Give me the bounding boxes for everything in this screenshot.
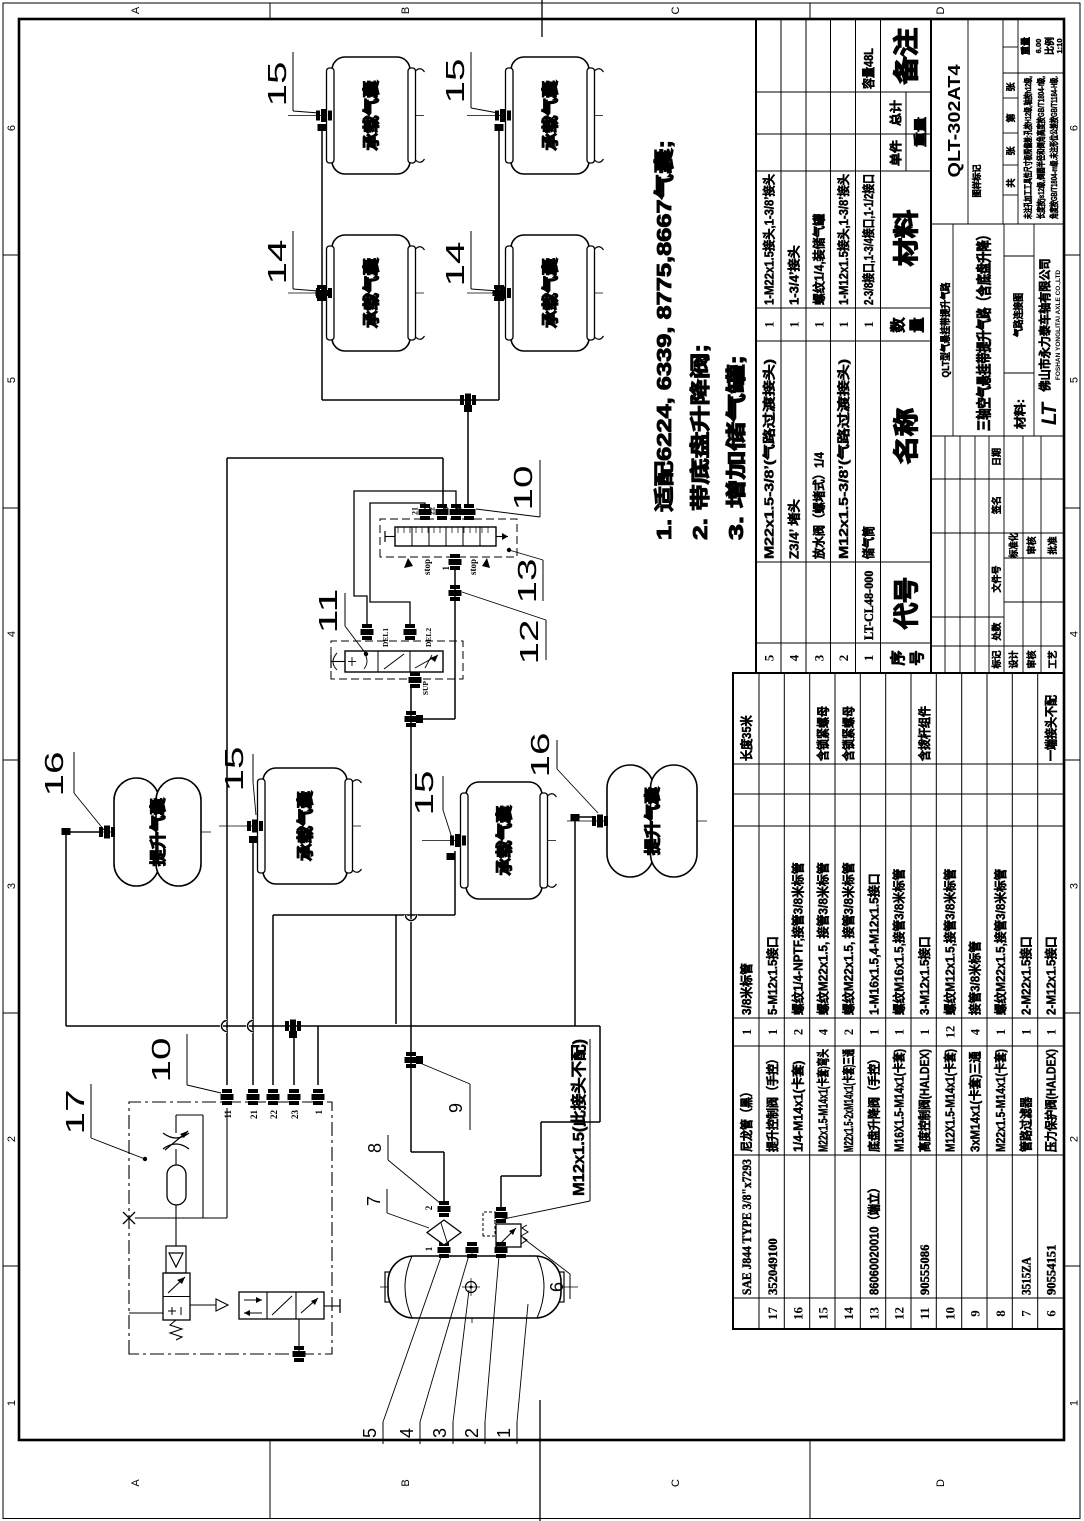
dashed box lift control valve — [380, 519, 517, 557]
svg-text:管路过滤器: 管路过滤器 — [1018, 1097, 1033, 1152]
svg-text:总计: 总计 — [888, 100, 903, 126]
svg-text:1: 1 — [788, 321, 802, 327]
svg-text:A: A — [130, 6, 142, 14]
svg-text:三轴空气悬挂带提升气路（含底盘升降）: 三轴空气悬挂带提升气路（含底盘升降） — [975, 229, 993, 431]
title block — [931, 19, 1064, 673]
tank port 1 + filter 7 — [424, 1220, 461, 1258]
svg-text:1: 1 — [441, 566, 451, 571]
svg-text:1: 1 — [740, 1029, 754, 1035]
svg-text:1: 1 — [813, 321, 827, 327]
svg-text:stop: stop — [422, 559, 432, 575]
svg-text:1: 1 — [1069, 1400, 1081, 1406]
svg-text:23: 23 — [442, 507, 451, 515]
svg-text:QLT型气悬挂带提升气路: QLT型气悬挂带提升气路 — [939, 282, 952, 378]
svg-text:4: 4 — [817, 1028, 831, 1035]
svg-text:备注: 备注 — [892, 28, 921, 85]
union fitting 12 target — [449, 585, 462, 601]
svg-text:未注孔加工工具性尺寸极限偏差:孔按H12级,轴按h12级,: 未注孔加工工具性尺寸极限偏差:孔按H12级,轴按h12级, — [1023, 76, 1033, 220]
callout 1 — [494, 1304, 528, 1444]
svg-text:17: 17 — [765, 1307, 780, 1321]
wire port21 to bag A — [248, 840, 254, 1085]
svg-text:2: 2 — [1069, 1136, 1081, 1142]
svg-text:张: 张 — [1005, 146, 1016, 156]
air bag 15 middle-right (load bag B) — [422, 782, 557, 899]
svg-text:21: 21 — [249, 1110, 259, 1120]
svg-text:90554151: 90554151 — [1045, 1245, 1059, 1295]
supply line from tank — [411, 688, 444, 1201]
svg-text:储气筒: 储气筒 — [861, 526, 876, 560]
svg-text:12: 12 — [943, 1026, 957, 1039]
callout 12 — [462, 592, 546, 665]
svg-text:10: 10 — [942, 1307, 957, 1320]
svg-text:15: 15 — [816, 1307, 831, 1321]
svg-text:1-3/4’接头: 1-3/4’接头 — [787, 245, 802, 305]
svg-text:M12x1.5-3/8’(气路过渡接头): M12x1.5-3/8’(气路过渡接头) — [836, 359, 851, 559]
svg-text:签名: 签名 — [991, 496, 1003, 515]
V1 pilot line to V2 — [190, 1299, 228, 1311]
svg-text:21: 21 — [411, 507, 420, 515]
svg-text:含锁紧螺母: 含锁紧螺母 — [816, 706, 831, 762]
svg-text:2-M22x1.5接口: 2-M22x1.5接口 — [1018, 936, 1033, 1015]
svg-text:材料: 材料 — [893, 210, 921, 266]
svg-text:长度按js12级,倒圆半径和倒角高度按GB/T1804-f级: 长度按js12级,倒圆半径和倒角高度按GB/T1804-f级, — [1036, 76, 1046, 219]
chassis valve lever top — [331, 653, 345, 670]
svg-text:4: 4 — [6, 631, 18, 637]
svg-text:角度按GB/T1804-m级.未注形位公差按GB/T1184: 角度按GB/T1804-m级.未注形位公差按GB/T1184-H级. — [1049, 76, 1059, 219]
svg-text:3-M12x1.5接口: 3-M12x1.5接口 — [917, 936, 932, 1015]
svg-text:压力保护阀(HALDEX): 压力保护阀(HALDEX) — [1044, 1049, 1059, 1152]
svg-text:16: 16 — [525, 733, 555, 778]
svg-text:号: 号 — [909, 650, 926, 665]
svg-text:B: B — [400, 7, 412, 14]
tee to port 24 — [460, 394, 476, 506]
air bag 15 middle-left (load bag A) — [219, 768, 362, 884]
svg-text:9: 9 — [446, 1103, 466, 1113]
elbow blobs at bag fittings — [62, 124, 580, 860]
svg-text:1: 1 — [867, 1029, 881, 1035]
svg-text:352049100: 352049100 — [766, 1238, 780, 1295]
svg-text:DEL2: DEL2 — [424, 628, 433, 647]
callout 14 lower — [440, 231, 498, 291]
callout 8 — [365, 1135, 440, 1203]
svg-text:10: 10 — [146, 1038, 176, 1083]
svg-text:容量48L: 容量48L — [861, 48, 876, 90]
svg-text:12: 12 — [514, 620, 544, 665]
svg-text:15: 15 — [219, 747, 249, 792]
callout 15 second bag — [440, 52, 498, 113]
svg-text:D: D — [935, 1479, 947, 1487]
svg-text:22: 22 — [269, 1110, 279, 1120]
lift valve port 1 — [441, 554, 462, 571]
chassis valve V2 (vertical 3-section) — [239, 1292, 324, 1319]
pressure protection valve 6 — [483, 1207, 528, 1258]
svg-text:M16X1.5-M14x1(卡套): M16X1.5-M14x1(卡套) — [892, 1049, 907, 1152]
svg-text:6: 6 — [547, 1282, 567, 1292]
svg-text:1: 1 — [6, 1400, 18, 1406]
svg-text:尼龙管（黑）: 尼龙管（黑） — [739, 1086, 754, 1152]
callout 4 — [397, 1255, 469, 1444]
svg-text:1/4-M14x1(卡套): 1/4-M14x1(卡套) — [790, 1061, 805, 1152]
svg-text:2: 2 — [462, 1428, 482, 1438]
svg-text:日期: 日期 — [991, 448, 1003, 466]
supply bus (vertical) — [66, 1025, 600, 1027]
svg-text:A: A — [130, 1479, 142, 1487]
svg-text:一端接头不配: 一端接头不配 — [1044, 695, 1059, 761]
svg-text:90555086: 90555086 — [918, 1245, 932, 1295]
svg-text:螺纹1/4,装储气罐: 螺纹1/4,装储气罐 — [812, 213, 827, 305]
svg-text:1: 1 — [862, 321, 876, 327]
fitting bag4 inline — [493, 285, 506, 301]
svg-text:C: C — [670, 1479, 682, 1487]
svg-text:序: 序 — [889, 650, 907, 665]
callout 11 — [313, 589, 368, 657]
svg-text:2: 2 — [6, 1136, 18, 1142]
svg-text:审核: 审核 — [1026, 650, 1038, 668]
svg-text:提升控制阀（手控）: 提升控制阀（手控） — [765, 1053, 780, 1152]
svg-text:16: 16 — [39, 752, 69, 797]
svg-text:代号: 代号 — [893, 577, 921, 630]
svg-text:4: 4 — [397, 1428, 417, 1438]
svg-text:6: 6 — [1044, 1310, 1059, 1317]
callout 2 — [462, 1256, 499, 1444]
svg-text:15: 15 — [440, 59, 470, 104]
svg-text:标记: 标记 — [991, 650, 1003, 669]
svg-text:M22x1.5-M14x1(卡套): M22x1.5-M14x1(卡套) — [993, 1049, 1008, 1152]
notes text — [652, 140, 748, 540]
svg-text:12: 12 — [892, 1307, 907, 1320]
svg-text:气路连接图: 气路连接图 — [1012, 293, 1025, 338]
svg-text:15: 15 — [409, 771, 439, 816]
svg-text:4: 4 — [1069, 631, 1081, 637]
svg-text:D: D — [935, 6, 947, 14]
callout 10 lower (box17 fittings) — [146, 1034, 221, 1093]
svg-text:3: 3 — [812, 654, 827, 661]
svg-text:5-M12x1.5接口: 5-M12x1.5接口 — [765, 936, 780, 1015]
air bag 15 lower (load bag) — [467, 57, 604, 174]
wire port22 to bag B — [273, 851, 455, 1085]
callout 15 bag B — [409, 771, 452, 839]
wire port 1 to bus — [317, 1026, 319, 1085]
svg-text:1: 1 — [861, 655, 876, 662]
svg-text:设计: 设计 — [1008, 650, 1020, 668]
svg-text:2: 2 — [791, 1029, 805, 1035]
box17 port fittings 11,21,22,23,1 — [221, 1089, 325, 1119]
svg-text:1: 1 — [494, 1428, 514, 1438]
svg-text:螺纹1/4-NPTF,接管3/8米标管: 螺纹1/4-NPTF,接管3/8米标管 — [790, 862, 805, 1015]
callout 3 — [430, 1290, 469, 1444]
callout 6 — [523, 1238, 570, 1299]
svg-text:6.00: 6.00 — [1034, 39, 1043, 54]
height control valve V1 — [163, 1273, 190, 1340]
svg-text:4: 4 — [787, 654, 802, 661]
svg-text:5: 5 — [360, 1428, 380, 1438]
air bag 14 lower (load bag) — [467, 235, 604, 351]
svg-text:13: 13 — [866, 1307, 881, 1321]
chassis valve body — [345, 651, 443, 672]
tee fitting 9 — [405, 1052, 424, 1068]
svg-text:M12X1.5-M14x1(卡套): M12X1.5-M14x1(卡套) — [942, 1049, 957, 1152]
svg-text:1-M22x1.5接头,1-3/8’接头: 1-M22x1.5接头,1-3/8’接头 — [762, 174, 777, 305]
svg-text:图样标记: 图样标记 — [971, 165, 982, 198]
svg-text:含拨杆组件: 含拨杆组件 — [917, 706, 932, 762]
svg-text:审核: 审核 — [1026, 536, 1038, 554]
svg-text:1: 1 — [994, 1029, 1008, 1035]
tee on bus to port 23 — [285, 1020, 301, 1086]
svg-text:4: 4 — [969, 1028, 983, 1035]
svg-text:1: 1 — [1019, 1029, 1033, 1035]
svg-text:22: 22 — [428, 507, 437, 515]
svg-text:QLT-302AT4: QLT-302AT4 — [944, 64, 964, 177]
wire bus to pressure valve chain — [501, 1026, 600, 1208]
V2 manual actuator — [324, 1299, 340, 1313]
svg-text:1: 1 — [837, 321, 851, 327]
tank middle plug port — [466, 1242, 479, 1258]
callout 13 — [507, 548, 543, 604]
svg-text:螺纹M16x1.5,接管3/8米标管: 螺纹M16x1.5,接管3/8米标管 — [892, 869, 907, 1015]
svg-text:1: 1 — [1045, 1029, 1059, 1035]
check valve — [166, 1246, 186, 1273]
svg-text:14: 14 — [440, 242, 470, 287]
svg-text:2: 2 — [836, 655, 851, 662]
svg-text:工艺: 工艺 — [1047, 650, 1059, 668]
wire bus to lift bag left — [66, 832, 102, 1026]
svg-text:1: 1 — [763, 321, 777, 327]
tank port 2 fitting 8 — [424, 1201, 451, 1217]
box17 internal wires — [129, 1108, 227, 1313]
svg-text:1. 适配6224, 6339, 8775,8667气囊;: 1. 适配6224, 6339, 8775,8667气囊; — [652, 140, 676, 540]
svg-text:6: 6 — [1069, 125, 1081, 131]
lift air bag 16 right — [567, 765, 707, 877]
air bag 14 upper (load bag) — [288, 235, 425, 351]
svg-text:14: 14 — [262, 240, 292, 285]
svg-text:螺纹M22x1.5,接管3/8米标管: 螺纹M22x1.5,接管3/8米标管 — [993, 869, 1008, 1015]
box17 blocked port X — [123, 1212, 227, 1224]
svg-text:stop: stop — [468, 559, 478, 575]
svg-text:7: 7 — [1018, 1310, 1033, 1317]
svg-text:M22x1.5-M14x1(卡套)弯头: M22x1.5-M14x1(卡套)弯头 — [816, 1049, 831, 1152]
svg-text:C: C — [670, 6, 682, 14]
svg-text:3/8米标管: 3/8米标管 — [739, 963, 754, 1015]
svg-text:16: 16 — [790, 1307, 805, 1321]
svg-text:FOSHAN YONGLITAI AXLE CO.,LTD: FOSHAN YONGLITAI AXLE CO.,LTD — [1055, 270, 1062, 381]
callout 16 right — [525, 733, 598, 814]
svg-text:7: 7 — [364, 1196, 384, 1206]
svg-text:螺纹M12x1.5,接管3/8米标管: 螺纹M12x1.5,接管3/8米标管 — [942, 869, 957, 1015]
svg-text:DEL1: DEL1 — [381, 628, 390, 647]
svg-text:1: 1 — [314, 1110, 324, 1115]
svg-text:SUP: SUP — [421, 681, 430, 696]
accumulator oval — [167, 1149, 186, 1246]
throttle valve — [163, 1131, 189, 1150]
svg-text:10: 10 — [508, 466, 538, 511]
svg-text:放水阀（螺堵式）1/4: 放水阀（螺堵式）1/4 — [812, 452, 827, 560]
stop labels and arrows — [404, 558, 490, 575]
svg-text:1:10: 1:10 — [1055, 38, 1064, 53]
svg-text:2-3/8接口,1-3/4接口,1-1/2接口: 2-3/8接口,1-3/4接口,1-1/2接口 — [861, 174, 876, 305]
svg-text:提升气囊: 提升气囊 — [149, 797, 168, 866]
svg-text:批准: 批准 — [1047, 536, 1059, 554]
callout 15 top bag — [262, 52, 319, 113]
parts list main table rows 1-5 with header — [756, 19, 931, 673]
svg-text:2: 2 — [842, 1029, 856, 1035]
wire port11 to valve port22 — [222, 458, 444, 1085]
svg-text:11: 11 — [223, 1110, 233, 1119]
svg-text:螺纹M22x1.5, 接管3/8米标管: 螺纹M22x1.5, 接管3/8米标管 — [841, 862, 856, 1015]
svg-text:11: 11 — [917, 1307, 932, 1319]
svg-text:11: 11 — [313, 589, 343, 634]
lift air bag 16 left — [74, 778, 211, 886]
svg-text:3. 增加储气罐;: 3. 增加储气罐; — [724, 355, 748, 540]
svg-text:1: 1 — [766, 1029, 780, 1035]
svg-text:长度35米: 长度35米 — [739, 715, 754, 761]
svg-text:提升气囊: 提升气囊 — [643, 786, 662, 855]
svg-text:高度控制阀(HALDEX): 高度控制阀(HALDEX) — [917, 1049, 932, 1152]
callout 5 — [360, 1257, 441, 1444]
svg-text:单件: 单件 — [888, 140, 903, 166]
svg-text:14: 14 — [841, 1307, 856, 1321]
lift valve body — [385, 527, 508, 546]
wire bus to lift bag right — [575, 817, 594, 1026]
svg-text:第: 第 — [1005, 113, 1016, 122]
svg-text:LT-CL48-000: LT-CL48-000 — [862, 571, 876, 640]
svg-text:1-M16x1.5,4-M12x1.5接口: 1-M16x1.5,4-M12x1.5接口 — [866, 873, 881, 1015]
svg-text:23: 23 — [290, 1110, 300, 1120]
svg-text:SAE J844 TYPE 3/8"x7293: SAE J844 TYPE 3/8"x7293 — [740, 1159, 754, 1295]
callout 14 upper — [262, 231, 318, 291]
svg-text:9: 9 — [968, 1310, 983, 1317]
dashed box chassis lift valve — [331, 641, 463, 679]
callout 9 — [420, 1063, 470, 1130]
svg-text:承载气囊: 承载气囊 — [494, 805, 514, 876]
svg-text:17: 17 — [60, 1090, 90, 1135]
V2 exhaust to box edge — [293, 1319, 306, 1362]
svg-text:佛山市永力泰车轴有限公司: 佛山市永力泰车轴有限公司 — [1037, 259, 1052, 393]
svg-text:M22x1.5-3/8’(气路过渡接头): M22x1.5-3/8’(气路过渡接头) — [762, 359, 777, 559]
svg-text:量: 量 — [909, 317, 926, 332]
svg-text:5: 5 — [6, 377, 18, 383]
svg-text:3: 3 — [430, 1428, 450, 1438]
svg-text:材料:: 材料: — [1013, 399, 1027, 429]
DEL1 DEL2 ports — [361, 624, 434, 647]
svg-text:5: 5 — [1069, 377, 1081, 383]
lift valve ports 21-24 — [411, 504, 476, 520]
svg-text:3515ZA: 3515ZA — [1019, 1257, 1033, 1295]
svg-text:承载气囊: 承载气囊 — [295, 790, 315, 861]
svg-text:2-M12x1.5接口: 2-M12x1.5接口 — [1044, 936, 1059, 1015]
svg-text:接管3/8米标管: 接管3/8米标管 — [968, 941, 983, 1015]
wire valve port 23 to DEL1 — [354, 491, 456, 624]
svg-text:Z3/4’ 堵头: Z3/4’ 堵头 — [787, 499, 802, 559]
svg-text:M22x1.5-2xM14x1(卡套)三通: M22x1.5-2xM14x1(卡套)三通 — [841, 1049, 856, 1152]
svg-text:1: 1 — [893, 1029, 907, 1035]
svg-text:8: 8 — [365, 1143, 385, 1153]
svg-text:15: 15 — [262, 62, 292, 107]
svg-text:重量: 重量 — [1020, 37, 1032, 55]
svg-text:张: 张 — [1005, 82, 1016, 92]
svg-text:B: B — [400, 1479, 412, 1486]
svg-text:3xM14x1(卡套)三通: 3xM14x1(卡套)三通 — [968, 1051, 983, 1152]
air tank (reservoir) — [380, 1251, 578, 1323]
svg-text:2. 带底盘升降阀;: 2. 带底盘升降阀; — [688, 344, 712, 540]
svg-text:1: 1 — [424, 1246, 434, 1251]
svg-text:1: 1 — [918, 1029, 932, 1035]
svg-text:8: 8 — [993, 1310, 1008, 1317]
svg-text:5: 5 — [762, 654, 777, 661]
dashed box 17 — [129, 1102, 332, 1354]
svg-text:2: 2 — [424, 1205, 434, 1210]
SUP port — [409, 672, 431, 695]
callout 15 bag A — [219, 747, 256, 816]
callout 16 left — [39, 752, 104, 831]
svg-text:标准化: 标准化 — [1008, 533, 1020, 559]
svg-text:承载气囊: 承载气囊 — [361, 257, 381, 328]
wire valve port 21 to DEL2 — [370, 503, 425, 624]
svg-text:承载气囊: 承载气囊 — [540, 257, 560, 328]
callout 7 — [364, 1189, 429, 1228]
svg-text:底盘升降阀（手控）: 底盘升降阀（手控） — [866, 1053, 881, 1152]
svg-text:86060020010（端立）: 86060020010（端立） — [866, 1182, 881, 1295]
svg-text:螺纹M22x1.5, 接管3/8米标管: 螺纹M22x1.5, 接管3/8米标管 — [816, 862, 831, 1015]
fitting bag3 inline — [316, 285, 329, 301]
tee to lift valve port 1 — [405, 567, 456, 727]
air bag 15 upper (load bag, top right) — [288, 57, 425, 174]
label M12x1.5 connector note — [494, 1039, 590, 1221]
wire bag group top row — [322, 128, 499, 400]
svg-text:数: 数 — [889, 317, 907, 333]
svg-text:含锁紧螺母: 含锁紧螺母 — [841, 706, 856, 762]
svg-text:承载气囊: 承载气囊 — [361, 80, 381, 151]
svg-text:13: 13 — [512, 559, 542, 604]
callout 10 upper — [476, 460, 540, 517]
svg-text:6: 6 — [6, 125, 18, 131]
svg-text:名称: 名称 — [892, 408, 921, 464]
svg-text:3: 3 — [1069, 883, 1081, 889]
svg-text:文件号: 文件号 — [991, 565, 1003, 593]
svg-text:重量: 重量 — [913, 117, 928, 147]
parts list continuation table rows 6-17 — [733, 673, 1064, 1329]
svg-text:共: 共 — [1005, 178, 1016, 187]
svg-text:M12x1.5(此接头不配): M12x1.5(此接头不配) — [569, 1039, 588, 1196]
wire bag B branch to bus — [395, 915, 397, 1024]
svg-text:3: 3 — [6, 883, 18, 889]
svg-text:处数: 处数 — [991, 622, 1003, 641]
callout 17 — [60, 1084, 147, 1161]
svg-text:1-M12x1.5接头,1-3/8’接头: 1-M12x1.5接头,1-3/8’接头 — [836, 174, 851, 305]
svg-text:承载气囊: 承载气囊 — [540, 80, 560, 151]
